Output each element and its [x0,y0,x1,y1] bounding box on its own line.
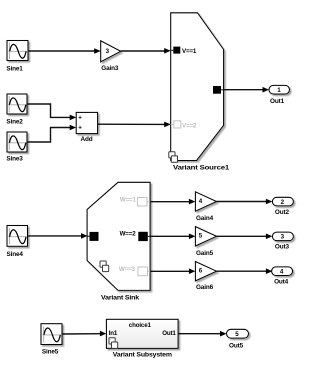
svg-text:+: + [78,125,82,132]
wire Add to Variant Source1 input 2 [98,122,171,128]
svg-text:Add: Add [81,136,93,143]
sine wave source Sine4 [7,226,28,259]
wire Variant Sink to Gain4 [150,199,195,205]
svg-text:6: 6 [199,268,203,275]
wire Variant Source1 to Out1 [224,87,269,93]
outport Out5 [227,329,249,349]
svg-text:Sine5: Sine5 [42,349,59,356]
wire Gain5 to Out3 [217,234,273,240]
svg-text:Gain6: Gain6 [196,284,214,291]
svg-text:Out5: Out5 [229,342,244,349]
variant source block Variant Source1 [169,13,230,172]
svg-text:Out4: Out4 [274,279,289,286]
wire Sine3 to Add input 2 [27,125,76,142]
svg-text:1: 1 [277,87,281,94]
svg-text:Out1: Out1 [162,330,176,337]
wire Gain4 to Out2 [217,199,273,205]
outport Out3 [272,232,293,251]
svg-text:Variant Source1: Variant Source1 [173,165,230,172]
svg-text:Out1: Out1 [270,98,285,105]
svg-text:Sine1: Sine1 [6,66,23,73]
svg-text:Gain4: Gain4 [196,215,214,222]
svg-text:Sine3: Sine3 [6,156,23,163]
variant subsystem block Variant Subsystem [106,319,178,358]
gain Gain5 [195,227,216,257]
Variant Sink variant badge [100,261,109,272]
Variant Source1 active input port square V==1 [171,49,174,51]
sine wave source Sine2 [6,94,27,126]
wire Variant Sink to Gain6 [150,268,195,274]
Variant Subsystem variant badge [109,338,118,349]
svg-text:Sine4: Sine4 [7,251,24,258]
wire Gain6 to Out4 [217,268,273,274]
svg-text:In1: In1 [109,330,118,337]
svg-text:Gain3: Gain3 [101,65,119,72]
wire Sine5 to Variant Subsystem [62,331,106,337]
svg-text:Variant Sink: Variant Sink [101,294,140,301]
svg-text:5: 5 [235,331,239,338]
adder block Add [76,112,97,143]
Variant Sink input port square [88,235,90,237]
Variant Source1 variant badge [169,152,178,163]
svg-text:Variant Subsystem: Variant Subsystem [113,351,172,358]
svg-text:V==1: V==1 [182,48,197,55]
wire Sine4 to Variant Sink input [28,233,88,239]
wire Gain3 to Variant Source1 input 1 [121,48,171,54]
svg-text:4: 4 [199,198,203,205]
svg-text:W==2: W==2 [120,230,137,237]
gain Gain4 [195,192,216,222]
svg-text:W==3: W==3 [119,266,136,273]
wire Sine2 to Add input 1 [27,104,76,120]
svg-text:+: + [78,115,82,122]
Variant Source1 inactive input port square V==2 [171,123,174,125]
svg-text:W==1: W==1 [120,197,137,204]
svg-text:Gain5: Gain5 [196,250,214,257]
gain Gain6 [195,262,216,292]
svg-text:5: 5 [199,233,203,240]
sine wave source Sine5 [41,324,62,356]
svg-text:3: 3 [106,48,110,55]
Variant Source1 output port square [213,86,221,94]
variant sink block Variant Sink [87,182,150,301]
outport Out4 [272,267,293,286]
gain Gain3 [101,41,121,72]
outport Out2 [272,197,293,216]
sine wave source Sine3 [6,132,27,163]
outport Out1 [269,85,290,105]
svg-text:3: 3 [281,234,285,241]
svg-text:4: 4 [280,269,284,276]
svg-text:Out3: Out3 [275,244,290,251]
sine wave source Sine1 [6,41,28,73]
svg-text:Out2: Out2 [275,209,290,216]
wire Variant Subsystem to Out5 [178,331,226,337]
svg-text:2: 2 [281,199,285,206]
svg-text:choice1: choice1 [129,322,152,329]
wire Sine1 to Gain3 [28,48,101,54]
wire Variant Sink to Gain5 [150,234,195,240]
svg-text:Sine2: Sine2 [6,119,23,126]
svg-text:V==2: V==2 [182,123,197,130]
